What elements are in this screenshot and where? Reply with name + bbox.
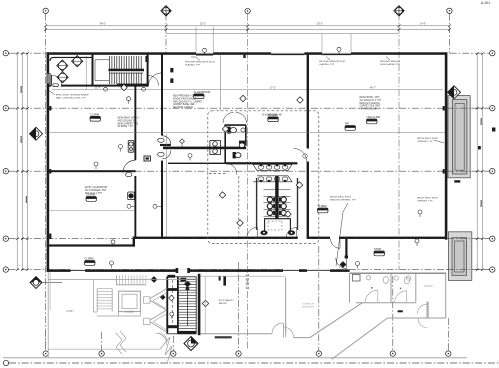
grid stub V-bottom 1 bbox=[45, 330, 47, 351]
line entry corridor x220 bbox=[219, 55, 221, 111]
grid bubble V3 top bbox=[245, 8, 250, 13]
svg-text:EXIST CLASSROOM: EXIST CLASSROOM bbox=[85, 186, 107, 189]
fixture box band2 bbox=[128, 192, 135, 200]
pilaster right wall y106.1 bbox=[443, 106, 445, 110]
svg-text:CLSRM: CLSRM bbox=[90, 112, 99, 116]
column symbol (62.6,77.2) bbox=[57, 72, 68, 83]
stair shaft top bar bbox=[167, 288, 178, 291]
keynote circle (190,155.5) bbox=[188, 154, 192, 161]
gray lobby lines bbox=[97, 312, 140, 316]
svg-text:AND CEILING P-1. CARPET: AND CEILING P-1. CARPET bbox=[173, 100, 203, 103]
svg-text:CARPET BASE. REF: CARPET BASE. REF bbox=[173, 103, 196, 106]
grid overlay dock2 y269 bbox=[447, 269, 489, 271]
door arc stair bbox=[149, 76, 159, 86]
grid bubble H2 right bbox=[490, 106, 495, 111]
top note 1 bbox=[185, 62, 215, 67]
grid overlay dock1 y108 bbox=[447, 107, 489, 109]
dimension line right 2 bbox=[481, 54, 483, 270]
svg-text:CLSRM: CLSRM bbox=[318, 204, 327, 208]
svg-text:21'-4": 21'-4" bbox=[95, 88, 101, 90]
svg-text:WINDOW OPENING, TYP: WINDOW OPENING, TYP bbox=[330, 199, 356, 201]
wall stub x345 bbox=[345, 239, 347, 258]
leader right note2 bbox=[336, 203, 348, 266]
black tick right edge2 bbox=[478, 146, 481, 149]
wall west of plaza bbox=[198, 274, 201, 335]
grid overlay dock2 y238 bbox=[447, 238, 489, 240]
window opening bottom 1 bbox=[71, 269, 85, 272]
svg-text:CLSRM: CLSRM bbox=[86, 193, 95, 197]
dim marker circle A bbox=[104, 87, 108, 91]
dock 2 inner2 bbox=[455, 241, 464, 272]
grid line H2 bbox=[9, 107, 490, 109]
dimension line left 3 bbox=[27, 53, 29, 269]
svg-text:EXIT CANOPY: EXIT CANOPY bbox=[219, 299, 234, 302]
room tag band2 bbox=[85, 257, 96, 266]
pilaster left wall y106.1 bbox=[49, 106, 51, 110]
sink upper bbox=[241, 128, 245, 132]
door opening south wall 2 bbox=[330, 236, 339, 239]
gray vestibule north line bbox=[200, 275, 285, 277]
grid bubble bottom 3 bbox=[171, 351, 176, 356]
grid line V4 bbox=[398, 14, 400, 270]
wall core east x307 lower bbox=[307, 162, 309, 239]
svg-text:32'-2": 32'-2" bbox=[200, 24, 206, 26]
door opening south wall 1 bbox=[298, 236, 308, 239]
svg-text:STOR: STOR bbox=[374, 247, 381, 251]
grid bubble bottom 6 bbox=[390, 351, 395, 356]
witness line entry right bbox=[212, 27, 214, 53]
right note 3 bbox=[417, 197, 439, 203]
pilaster top wall x243 bbox=[243, 55, 245, 58]
room tag classroom1 bbox=[90, 112, 101, 121]
door oval storage bbox=[126, 173, 132, 177]
keynote diamond (225.5,129) bbox=[222, 126, 228, 132]
dim text interior bbox=[270, 88, 276, 90]
leader top note2 bbox=[326, 57, 330, 61]
grid bubble H2 left bbox=[3, 106, 8, 111]
note text classroom1 bbox=[118, 117, 140, 129]
door arc corridor SW bbox=[247, 227, 258, 238]
toilet upper 2 bbox=[239, 141, 245, 148]
spine wall core bbox=[275, 176, 278, 219]
grid stub V-bottom 6 bbox=[392, 276, 394, 351]
door jamb stub B bbox=[170, 78, 173, 83]
utility door leaf bbox=[426, 302, 428, 319]
dimension ticks right bbox=[476, 52, 484, 271]
section diamond dock1 bbox=[448, 86, 461, 99]
svg-text:PROVIDE WINDOW: PROVIDE WINDOW bbox=[380, 61, 401, 63]
grid bubble H1 left bbox=[3, 51, 8, 56]
svg-text:LOBBY: LOBBY bbox=[66, 310, 74, 313]
svg-text:GLAZING, TYP: GLAZING, TYP bbox=[319, 63, 335, 66]
wall corridor north bar bbox=[163, 147, 246, 150]
gray bay window 1 bbox=[144, 297, 150, 303]
gray rooms left wall bbox=[349, 273, 351, 303]
grid stub V-bottom 5 bbox=[318, 246, 320, 351]
janitor dashes bbox=[268, 221, 282, 230]
wall stair east bbox=[147, 54, 149, 87]
gray break zigzag bbox=[160, 337, 172, 364]
pilaster left wall lower bbox=[49, 234, 51, 239]
window opening bottom 3 bbox=[307, 269, 330, 272]
dimension line top A bbox=[46, 25, 450, 27]
column symbol (62.3,65.6) bbox=[57, 60, 68, 71]
stair top-left treads bbox=[109, 56, 141, 84]
gray bottom long line bbox=[3, 357, 467, 359]
keynote circle (120.5,146.5) bbox=[119, 145, 123, 152]
core east wall segment bbox=[297, 178, 298, 230]
grid bubble V2 top diamond bbox=[161, 6, 171, 16]
gray vestibule east wall bbox=[285, 278, 287, 333]
titleblock text bbox=[481, 1, 490, 5]
leader top note1 bbox=[191, 57, 200, 61]
svg-text:NO CHANGES. PNT: NO CHANGES. PNT bbox=[85, 189, 107, 192]
room tag 101 bbox=[194, 90, 211, 99]
svg-text:AND CEILING P-1.: AND CEILING P-1. bbox=[118, 119, 138, 122]
svg-text:27'-2": 27'-2" bbox=[270, 88, 276, 90]
keynote diamond (299.5,185) bbox=[296, 182, 302, 188]
wall face line x166 bbox=[165, 134, 167, 237]
wall classroom band2 left bbox=[49, 170, 136, 172]
gray rooms right wall bbox=[445, 273, 447, 318]
gray vestibule bottom bbox=[200, 333, 271, 335]
gray left wall bbox=[47, 272, 49, 358]
door opening bottom entry bbox=[176, 268, 190, 273]
canopy note bbox=[219, 299, 234, 305]
keynote diamond (124,87.5) bbox=[121, 84, 127, 90]
room tag lrg bbox=[367, 115, 380, 124]
gray elev break zigzag bbox=[116, 331, 126, 354]
grid line H6 bottom bbox=[9, 362, 499, 364]
keynote circle (420,212) bbox=[418, 210, 422, 217]
grid bubble bottom 4 bbox=[236, 351, 241, 356]
grid stub V-bottom 7 bbox=[447, 318, 449, 351]
utility door arc up bbox=[417, 304, 427, 314]
dimension line interior bbox=[52, 89, 443, 91]
gray fixtures toilets bbox=[383, 277, 409, 284]
black stub plaza bbox=[223, 276, 226, 285]
pilaster right wall y169.1 bbox=[443, 169, 445, 173]
gray rooms door arc 1 bbox=[365, 290, 378, 303]
black stub plaza2 bbox=[219, 276, 221, 280]
witness line entry left bbox=[195, 27, 197, 53]
storefront recess top 1 bbox=[196, 52, 213, 55]
room tag classroom4 bbox=[318, 204, 329, 213]
dock 2 inner bbox=[452, 238, 467, 276]
gray left wall face bbox=[49, 272, 51, 310]
dim text interior3 bbox=[95, 88, 101, 90]
room tag classroom2 bbox=[268, 113, 279, 122]
stair south bottom bar bbox=[178, 331, 196, 334]
storefront recess top 2 bbox=[271, 52, 304, 54]
gray bay window 2 bbox=[144, 318, 150, 324]
note text classroom3 bbox=[85, 186, 107, 195]
dark mini box bbox=[144, 156, 150, 161]
dim text top bbox=[100, 24, 106, 26]
gray stair outline path bbox=[94, 287, 98, 312]
EWC fixtures bbox=[210, 141, 221, 155]
gray rooms wall x391 bbox=[390, 273, 392, 303]
keynote circle (111.5,263) bbox=[110, 261, 114, 268]
section diamond lobby bbox=[30, 277, 62, 289]
gray stair side bbox=[97, 289, 112, 312]
svg-text:PROVIDE WINDOW FILM ON: PROVIDE WINDOW FILM ON bbox=[185, 62, 215, 64]
grid bubble H1 right bbox=[490, 51, 495, 56]
svg-text:CLASSROOM/LAB: CLASSROOM/LAB bbox=[262, 114, 282, 117]
keynote circle (113,241.9) bbox=[111, 240, 115, 247]
room dot A bbox=[371, 287, 373, 289]
grid line H4 bbox=[9, 238, 490, 240]
wall corridor south-left segment bbox=[161, 161, 163, 239]
keynote diamond corridor bbox=[180, 139, 185, 147]
wall jog bbox=[133, 237, 135, 247]
stair south dark top-right bbox=[180, 278, 186, 282]
leader right note1 bbox=[434, 140, 444, 143]
svg-text:PATCH INFILL EXIST: PATCH INFILL EXIST bbox=[417, 137, 439, 140]
door arc storage bbox=[123, 160, 135, 173]
leader left note bbox=[48, 86, 55, 95]
toilet partitions bbox=[264, 190, 291, 197]
gray rooms door arc 2 bbox=[395, 291, 407, 303]
gray bay inner bbox=[153, 293, 167, 331]
stair divider wall bbox=[177, 277, 179, 334]
dim text mark left a bbox=[21, 86, 22, 93]
dim text mark right a bbox=[481, 118, 482, 125]
gray corridor diag NW bbox=[310, 303, 363, 338]
keynote diamond dark (343,264.5) bbox=[340, 261, 347, 268]
restroom door arc lower-left bbox=[225, 163, 237, 175]
svg-text:W/ BASE, TYP: W/ BASE, TYP bbox=[118, 125, 134, 128]
witness line storefront left bbox=[321, 34, 323, 53]
wall exterior top bbox=[47, 52, 447, 55]
dimension line right 1 bbox=[476, 54, 478, 270]
svg-text:FILM GLAZING TYP: FILM GLAZING TYP bbox=[380, 63, 401, 66]
grid bubble bottom 5 bbox=[316, 351, 321, 356]
stair shaft bottom bar bbox=[167, 325, 178, 328]
vestibule door sill bbox=[53, 84, 59, 87]
gray bay chevron bbox=[149, 289, 167, 333]
svg-text:48'-0": 48'-0" bbox=[100, 24, 106, 26]
stair south dark top-left bbox=[168, 275, 176, 278]
wall south classroom left bbox=[47, 244, 135, 246]
corridor text bbox=[302, 304, 315, 309]
wall storage west x135 upper bbox=[134, 86, 136, 160]
dock 1 tick bbox=[454, 180, 460, 182]
stub stair door bbox=[145, 56, 148, 62]
door arc corridor SE bbox=[286, 227, 297, 238]
line y132 interior bbox=[49, 132, 445, 134]
dimension ticks top bbox=[44, 24, 451, 31]
svg-text:ABOVE: ABOVE bbox=[219, 302, 227, 305]
core west wall bbox=[256, 178, 257, 230]
dock 1 mid bbox=[452, 100, 467, 174]
stair shaft dashed centerline bbox=[171, 280, 173, 324]
black tick right edge bbox=[492, 128, 495, 132]
grid line H5 bbox=[9, 269, 490, 271]
label classroom2 bbox=[262, 114, 282, 117]
gray canopy line bbox=[48, 279, 198, 281]
wall exterior left bbox=[47, 52, 50, 271]
wall south of right wing bbox=[133, 237, 446, 239]
grid line V1 bbox=[45, 14, 47, 351]
room dot B bbox=[400, 288, 402, 290]
sink counter row bbox=[253, 164, 292, 181]
svg-text:ROOM. PAINT WALLS: ROOM. PAINT WALLS bbox=[173, 97, 197, 100]
dark sidewalk bar bbox=[215, 336, 232, 338]
dashed core inner line bbox=[209, 173, 228, 175]
grid bubble H4 right bbox=[490, 236, 495, 241]
wall exterior bottom-left wing bbox=[47, 269, 350, 272]
black tick utility bbox=[398, 310, 403, 312]
dim text top3 bbox=[317, 24, 323, 26]
svg-text:PROVIDE WINDOW FILM: PROVIDE WINDOW FILM bbox=[319, 61, 345, 63]
room tag right band bbox=[374, 247, 385, 256]
dimension line top C bbox=[166, 33, 399, 35]
mop sink left bbox=[260, 230, 267, 235]
dimension ticks left bbox=[16, 52, 29, 271]
wall exterior right bbox=[445, 52, 448, 239]
svg-text:LRG CLRM: LRG CLRM bbox=[367, 115, 380, 119]
gray corridor south wall right bbox=[388, 317, 446, 319]
room tag small core bbox=[345, 122, 356, 131]
dashed future wall x238 bbox=[238, 176, 240, 237]
gray lobby divider bbox=[93, 280, 95, 287]
wall storage west x135 lower bbox=[134, 176, 136, 238]
svg-text:PATCH INFILL EXIST: PATCH INFILL EXIST bbox=[330, 196, 352, 199]
dock 2 outer bbox=[449, 232, 472, 281]
lobby text bbox=[66, 310, 74, 313]
witness line storefront right bbox=[350, 34, 352, 53]
door arc south2 bbox=[336, 258, 347, 269]
keynote diamond large bottom bbox=[184, 337, 198, 351]
svg-text:NEW CARPET TILE: NEW CARPET TILE bbox=[118, 122, 139, 125]
svg-text:CLSRM: CLSRM bbox=[85, 257, 94, 261]
dimension line top B bbox=[46, 29, 450, 31]
EWC box classroom1 bbox=[128, 140, 134, 152]
keynote circle (96,164) bbox=[94, 162, 98, 169]
svg-text:46'-7": 46'-7" bbox=[370, 88, 376, 90]
gray double door bbox=[272, 323, 294, 338]
svg-text:NEW PAINT. WALLS: NEW PAINT. WALLS bbox=[118, 117, 140, 120]
section diamond left bbox=[30, 127, 43, 140]
grid bubble V4 top diamond bbox=[394, 6, 404, 16]
top note 2 bbox=[319, 61, 345, 66]
note text room101 bbox=[173, 95, 203, 110]
double door arcs corridor x163 bbox=[163, 136, 171, 159]
left bottom note bbox=[56, 95, 89, 100]
vestibule inner wall bbox=[50, 57, 92, 61]
dim text top4 bbox=[420, 24, 426, 26]
svg-text:PATCH INFILL EXIST: PATCH INFILL EXIST bbox=[417, 197, 439, 200]
room line y210 bbox=[50, 210, 135, 212]
gray fixtures sinks bbox=[366, 276, 411, 281]
keynote circle (339,49.3) bbox=[337, 47, 341, 54]
svg-text:FIN SCHEDULE: FIN SCHEDULE bbox=[360, 109, 377, 111]
dim text mark left b bbox=[21, 136, 22, 143]
keynote circle (171.8,314) bbox=[170, 312, 174, 319]
svg-text:NEW ACT CEILING: NEW ACT CEILING bbox=[360, 102, 380, 105]
dim text mark left c bbox=[26, 196, 27, 203]
bay keynote diamond dark bbox=[160, 294, 166, 300]
svg-text:CORRIDOR: CORRIDOR bbox=[302, 304, 314, 306]
keynote diamond (288,214) bbox=[285, 211, 291, 217]
gray rooms wall x412 bbox=[415, 273, 417, 303]
grid stub V-bottom 4 bbox=[238, 262, 240, 351]
wall corridor south restroom bbox=[226, 162, 297, 164]
keynote circle (128.6,98.7) bbox=[127, 97, 131, 104]
grid bubble V1 top bbox=[43, 8, 48, 13]
dock 1 outer bbox=[448, 96, 470, 178]
grid stub V-bottom 3 bbox=[172, 336, 174, 351]
restroom upper door arcs bbox=[223, 113, 247, 124]
gray vestibule west face bbox=[204, 276, 206, 334]
dashed roof line pair bbox=[246, 274, 248, 291]
dimension line vestibule vert bbox=[85, 56, 87, 90]
mop sink right bbox=[288, 230, 295, 235]
leader top note3 bbox=[386, 57, 390, 61]
keynote diamond (222.5,195) bbox=[219, 192, 225, 198]
keynote circle (357.5,263.5) bbox=[356, 262, 360, 269]
dimension line left 1 bbox=[16, 53, 18, 269]
grid bubble bottom 2 bbox=[99, 351, 104, 356]
dim text mark right b bbox=[481, 200, 482, 207]
gray rooms top wall bbox=[350, 272, 447, 274]
stair top-left center rail bbox=[109, 69, 145, 74]
stair keynote diamond bbox=[169, 295, 175, 301]
svg-text:GLAZING, TYP: GLAZING, TYP bbox=[185, 63, 201, 66]
storefront recess top 3 bbox=[322, 52, 351, 54]
door jamb stub A bbox=[170, 68, 173, 73]
dashed core outline bbox=[208, 111, 319, 244]
grid bubble bottom 1 bbox=[43, 351, 48, 356]
wall vestibule east bbox=[92, 54, 94, 86]
svg-text:14'-6": 14'-6" bbox=[420, 24, 426, 26]
grid bubble H6 left bbox=[3, 360, 8, 365]
grid bubble bottom 7 bbox=[446, 351, 451, 356]
gray lobby inner line bbox=[48, 348, 160, 350]
sink fixtures bbox=[258, 164, 288, 182]
wall below vestibule-stair bbox=[49, 85, 149, 87]
door arc south1 bbox=[331, 239, 340, 248]
svg-text:VESTIBULE: VESTIBULE bbox=[302, 306, 315, 308]
wall core east x307 bbox=[307, 54, 309, 149]
keynote circle (204.5,50.3) bbox=[203, 48, 207, 55]
door arc room101 bbox=[148, 73, 162, 87]
dim text interior2 bbox=[370, 88, 376, 90]
dock 1 inner bbox=[455, 103, 464, 170]
keynote diamond (240,223) bbox=[237, 220, 243, 226]
svg-text:OPENING, TYP: OPENING, TYP bbox=[417, 200, 433, 202]
svg-text:NEW FINISH - PNT: NEW FINISH - PNT bbox=[360, 97, 381, 99]
svg-text:OPENING, TYP: OPENING, TYP bbox=[417, 141, 433, 143]
restroom upper outline bbox=[225, 125, 246, 163]
wall corridor west x162 bbox=[161, 54, 163, 136]
right note 1 bbox=[417, 137, 439, 143]
grid line V2 bbox=[165, 14, 167, 54]
keynote diamond dark (154,279.5) bbox=[151, 276, 158, 283]
stair top-left stringers bbox=[95, 60, 109, 81]
door jamb south bbox=[345, 256, 348, 259]
svg-text:ALL WALLS P-1 TYP.: ALL WALLS P-1 TYP. bbox=[360, 99, 382, 102]
door oval tag lower bbox=[158, 152, 165, 156]
grid bubble H3 left bbox=[3, 169, 8, 174]
dim marker circle B bbox=[142, 87, 146, 91]
door leaf bar corridor bbox=[160, 144, 171, 146]
stair south treads bbox=[179, 279, 196, 329]
svg-text:WALL CONSTRUCTION, TYP: WALL CONSTRUCTION, TYP bbox=[56, 96, 86, 99]
grid bubble H5 left bbox=[3, 267, 8, 272]
window hatch left wall bbox=[47, 73, 50, 83]
